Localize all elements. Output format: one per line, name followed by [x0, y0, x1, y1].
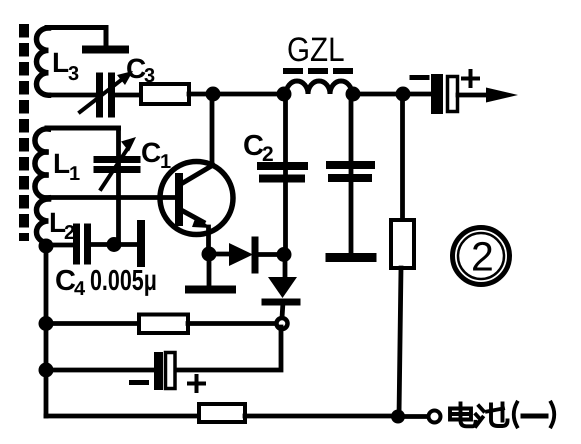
antenna dashed line	[19, 24, 29, 241]
svg-text:3: 3	[68, 63, 79, 85]
node collector top	[206, 87, 221, 102]
capacitor C6 output black plate	[431, 74, 443, 114]
terminal bar right of C4	[137, 224, 145, 263]
collector wire	[210, 94, 215, 163]
node GZL right	[346, 87, 361, 102]
Q1 base bar	[175, 177, 183, 222]
node D2 bottom	[277, 318, 288, 329]
svg-text:L: L	[53, 148, 70, 179]
svg-text:1: 1	[160, 151, 171, 173]
circled 2 inner	[458, 233, 504, 279]
transistor Q1 circle	[160, 162, 233, 235]
svg-text:C: C	[55, 265, 76, 297]
wire C1 vertical	[116, 128, 121, 244]
node L2 bottom	[39, 239, 54, 254]
wire C4 to bar	[91, 242, 137, 247]
wire to R3	[46, 321, 139, 326]
wire battery to riser	[177, 327, 281, 370]
ground bar	[189, 286, 232, 294]
choke GZL	[286, 81, 352, 94]
resistor R2	[391, 220, 414, 268]
node R2 top	[396, 87, 411, 102]
label battery chinese 池	[476, 404, 508, 427]
wire to arrow	[458, 93, 490, 98]
GZL core dashes	[283, 68, 353, 74]
node D1 cathode	[277, 247, 292, 262]
resistor R2 wire top	[400, 94, 405, 220]
svg-text:0.005μ: 0.005μ	[90, 265, 157, 297]
wire D2 to node	[282, 302, 283, 318]
resistor R1	[141, 84, 189, 104]
capacitor C5 plates	[330, 161, 371, 169]
node left mid	[39, 316, 54, 331]
wire battery line	[46, 368, 153, 373]
ground stem	[207, 254, 212, 286]
node bottom	[391, 410, 405, 424]
plate bar under L3 top	[86, 46, 125, 54]
wire C3 to R1	[114, 93, 141, 98]
Q1 emitter arrowhead	[192, 216, 211, 228]
Q1 emitter diagonal	[181, 210, 203, 222]
svg-text:2: 2	[471, 234, 494, 280]
label battery minus	[132, 380, 147, 385]
capacitor C2 plates	[261, 162, 304, 170]
capacitor C4	[73, 227, 80, 261]
diode D1	[229, 243, 253, 266]
label plus output	[463, 71, 478, 86]
svg-text:2: 2	[64, 222, 75, 244]
coil L2	[37, 199, 49, 243]
node C2 top	[277, 87, 292, 102]
coil L3	[37, 28, 49, 95]
wire L3 top	[47, 28, 106, 47]
wire L3 bottom to C3	[47, 93, 97, 98]
capacitor C6 output white plate	[448, 77, 458, 112]
circled 2 outer	[453, 228, 510, 285]
wire emitter to D1	[209, 252, 230, 257]
R2 wire bottom	[399, 268, 401, 416]
open terminal	[429, 411, 441, 423]
wire to C4	[46, 243, 73, 248]
wire GZL to output	[353, 92, 431, 97]
resistor R4	[199, 404, 245, 422]
capacitor C5 wire top	[349, 94, 354, 253]
svg-text:4: 4	[74, 278, 86, 300]
wire L2 bottom to node	[46, 242, 49, 246]
label battery chinese 电	[450, 404, 476, 427]
resistor R3	[139, 315, 188, 334]
wire node to D2	[283, 255, 288, 278]
C5 ground bar	[330, 253, 372, 262]
svg-text:GZL: GZL	[287, 31, 345, 69]
wire L1 top	[47, 126, 119, 131]
wire R4 to node	[245, 414, 398, 419]
node left battery	[39, 363, 54, 378]
svg-text:C: C	[243, 130, 264, 162]
capacitor C3 (variable)	[96, 76, 103, 114]
svg-text:C: C	[141, 137, 161, 168]
Q1 collector diagonal	[181, 165, 213, 184]
label minus output	[412, 75, 427, 80]
svg-text:3: 3	[144, 65, 155, 87]
capacitor C2 wire top	[283, 94, 288, 255]
battery positive plate	[166, 353, 176, 389]
label battery plus	[189, 376, 204, 391]
wire R3 to node	[188, 321, 276, 326]
capacitor C1 (variable) plates	[97, 156, 137, 163]
diode D2	[268, 277, 297, 298]
coil L1	[35, 129, 49, 198]
node emitter	[202, 247, 217, 262]
node C1 bottom	[107, 237, 122, 252]
wire to terminal	[398, 414, 427, 419]
output arrow	[486, 88, 518, 103]
emitter wire	[206, 227, 211, 254]
battery negative plate	[154, 352, 163, 390]
svg-text:L: L	[52, 47, 69, 78]
base wire	[42, 195, 176, 200]
wire R1 to node	[189, 92, 286, 97]
C1 arrow	[101, 148, 128, 189]
left rail	[44, 246, 49, 416]
svg-text:1: 1	[69, 163, 80, 185]
svg-text:2: 2	[262, 143, 274, 166]
bottom rail	[46, 414, 199, 419]
label battery (one)	[514, 403, 555, 427]
wire D1 to node	[258, 252, 284, 257]
